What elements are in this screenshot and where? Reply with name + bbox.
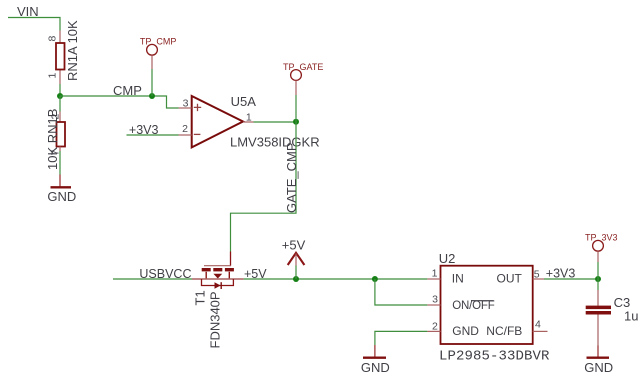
testpoint TP_GATE	[283, 62, 323, 95]
wire USBVCC	[113, 278, 192, 280]
body diode	[215, 282, 221, 289]
ground (RN1B)	[47, 175, 76, 205]
ground (U2)	[361, 345, 390, 375]
svg-text:8: 8	[47, 36, 59, 42]
wire TP_CMP to node	[151, 69, 153, 96]
svg-text:NC/FB: NC/FB	[486, 324, 522, 338]
pin lead 3 ON/OFF	[427, 304, 440, 306]
svg-text:+3V3: +3V3	[129, 123, 159, 137]
wire supply stem	[295, 266, 297, 280]
minus sign	[194, 133, 201, 135]
svg-text:U2: U2	[439, 251, 456, 266]
svg-text:10K RN1B: 10K RN1B	[45, 109, 60, 170]
wire branch to ON/OFF	[375, 279, 428, 305]
junction 3V3	[595, 276, 601, 282]
supply symbol +5V	[282, 237, 306, 265]
svg-text:+5V: +5V	[282, 237, 306, 252]
source terminal	[228, 272, 230, 279]
wire junction to C3	[597, 279, 599, 290]
svg-text:OUT: OUT	[497, 272, 523, 286]
svg-text:3: 3	[183, 98, 189, 110]
wire +5V rail	[244, 278, 428, 280]
wire +3V3 to pin2	[127, 134, 179, 136]
wire +3V3	[544, 278, 598, 280]
pin lead 1 (output)	[243, 121, 254, 123]
svg-text:1: 1	[432, 268, 438, 280]
pin lead 4 NC/FB	[533, 330, 548, 332]
junction +5V supply	[293, 276, 299, 282]
svg-text:4: 4	[535, 319, 541, 331]
wire VIN	[8, 18, 60, 31]
pin lead 2 GND	[427, 330, 440, 332]
wire TP_3V3 to junction	[597, 262, 599, 279]
svg-text:GATE_CMP: GATE_CMP	[284, 142, 299, 213]
svg-text:LP2985-33DBVR: LP2985-33DBVR	[439, 349, 550, 365]
junction TP_CMP tap	[149, 93, 155, 99]
svg-text:FDN340P: FDN340P	[208, 291, 223, 348]
svg-text:1u: 1u	[624, 309, 638, 324]
svg-text:GND: GND	[47, 189, 76, 204]
svg-text:LMV358IDGKR: LMV358IDGKR	[230, 135, 320, 150]
svg-text:2: 2	[432, 320, 438, 332]
wire RN1B to GND	[59, 151, 61, 175]
svg-text:U5A: U5A	[231, 94, 257, 109]
svg-text:TP_CMP: TP_CMP	[140, 36, 177, 46]
wire GND pin2	[375, 331, 428, 345]
svg-text:ON/OFF: ON/OFF	[452, 300, 494, 312]
wire GATE_CMP	[231, 122, 297, 252]
resistor RN1A	[56, 31, 65, 85]
svg-text:IN: IN	[452, 272, 464, 286]
op-amp U5A	[192, 96, 243, 147]
ground (C3)	[584, 346, 613, 375]
pin lead 5 OUT	[533, 278, 544, 280]
svg-text:5: 5	[534, 268, 540, 280]
wire output to junction	[254, 121, 297, 123]
body diode loop	[202, 279, 234, 286]
transistor T1 gate lead	[230, 252, 232, 266]
gate bar	[204, 265, 231, 267]
node CMP junction	[57, 93, 63, 99]
transistor T1 (FDN340P p-mosfet)	[192, 266, 244, 289]
svg-text:TP_GATE: TP_GATE	[283, 62, 323, 72]
substrate arrow	[213, 274, 222, 279]
plus sign	[194, 104, 201, 111]
pin lead 3	[179, 107, 192, 109]
pin lead 2	[179, 134, 192, 136]
svg-text:3: 3	[432, 294, 438, 306]
svg-text:2: 2	[182, 123, 188, 135]
svg-text:1: 1	[47, 73, 59, 79]
svg-text:GND: GND	[584, 360, 613, 375]
svg-text:GND: GND	[361, 360, 390, 375]
wire TP_GATE to junction	[295, 95, 297, 122]
channel bars	[202, 268, 211, 271]
svg-text:RN1A 10K: RN1A 10K	[65, 20, 80, 81]
pin lead 1 IN	[427, 278, 440, 280]
svg-text:GND: GND	[452, 324, 479, 338]
capacitor C3	[586, 290, 611, 346]
wire CMP	[60, 96, 179, 108]
svg-text:T1: T1	[193, 290, 208, 305]
regulator U2 LP2985	[441, 266, 533, 344]
wire RN1A to node	[59, 84, 61, 96]
source line	[192, 278, 244, 280]
testpoint TP_3V3	[585, 232, 618, 262]
drain terminal	[205, 272, 207, 279]
wire node to RN1B	[59, 96, 61, 112]
testpoint TP_CMP	[140, 36, 177, 69]
junction GATE node	[293, 119, 299, 125]
junction U2 input branch	[372, 276, 378, 282]
resistor RN1B	[57, 112, 66, 152]
